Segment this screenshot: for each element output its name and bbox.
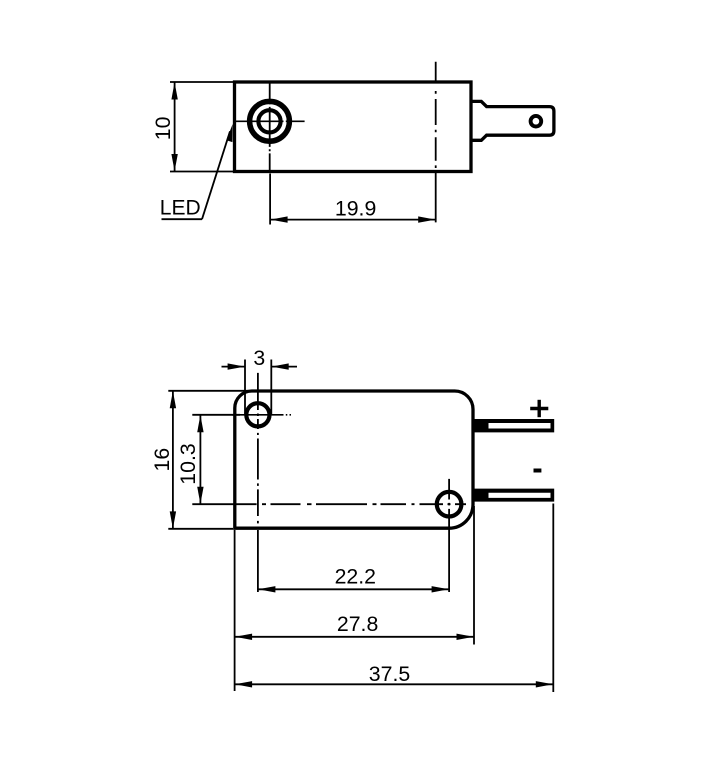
connector tab hole bbox=[531, 116, 542, 127]
svg-text:10.3: 10.3 bbox=[176, 443, 200, 484]
dimension 10.3: dimension line with arrows bbox=[199, 415, 201, 504]
top view body outline bbox=[235, 82, 472, 172]
svg-text:3: 3 bbox=[253, 346, 265, 370]
dimension 16: extension lines bbox=[168, 390, 248, 392]
svg-text:22.2: 22.2 bbox=[335, 565, 376, 589]
svg-text:16: 16 bbox=[150, 448, 174, 472]
LED label leader diagonal bbox=[202, 131, 230, 219]
LED indicator outer ring bbox=[250, 101, 290, 141]
dimension 16: dimension line with arrows bbox=[172, 391, 174, 528]
LED vertical centerline segments bbox=[269, 82, 271, 172]
minus polarity symbol bbox=[534, 469, 542, 473]
svg-text:19.9: 19.9 bbox=[335, 196, 376, 220]
plus terminal pin bbox=[475, 419, 555, 432]
svg-text:27.8: 27.8 bbox=[337, 612, 378, 636]
dimension 27.8: dimension line with arrows bbox=[235, 636, 474, 638]
dimension 10: extension lines bbox=[170, 81, 233, 83]
dimension 10.3: extension lines bbox=[192, 414, 240, 416]
dimension 10: dimension line with arrows bbox=[174, 83, 176, 172]
mounting hole 1 (top left) bbox=[246, 403, 269, 426]
hole 1 horizontal centerline segments bbox=[232, 414, 291, 416]
minus terminal pin bbox=[475, 489, 555, 502]
svg-text:37.5: 37.5 bbox=[369, 662, 410, 686]
LED label leader arrowhead bbox=[226, 124, 232, 142]
dimension 37.5: extension line right bbox=[552, 504, 554, 693]
mounting hole 2 (bottom right) bbox=[437, 492, 462, 517]
main vertical dash-dot centerline of top view bbox=[435, 62, 437, 223]
dimension 27.8: extension lines bbox=[234, 530, 236, 642]
dimension 3: extension lines bbox=[244, 360, 246, 415]
main horizontal centerline through hole 2 bbox=[232, 503, 466, 505]
hole 1 vertical centerline segments bbox=[257, 373, 259, 530]
dimension 19.9: dimension line with arrows bbox=[270, 219, 436, 221]
bottom view body outline bbox=[235, 391, 473, 528]
plus polarity symbol bbox=[530, 407, 548, 411]
LED horizontal centerline segments bbox=[235, 120, 305, 122]
svg-text:LED: LED bbox=[160, 197, 201, 220]
connector tab (quick-connect terminal) bbox=[471, 101, 554, 140]
dimension 22.2: dimension line with arrows bbox=[258, 588, 449, 590]
LED label leader underline bbox=[162, 218, 203, 220]
dimension 37.5: dimension line with arrows bbox=[235, 683, 554, 685]
dimension 3: dimension line, outside arrows pointing inward bbox=[222, 366, 246, 368]
svg-text:10: 10 bbox=[151, 116, 175, 140]
LED indicator inner ring bbox=[258, 110, 280, 132]
dimension 19.9: left extension line bbox=[269, 174, 271, 225]
hole 2 vertical centerline segments bbox=[448, 479, 450, 535]
dimension 37.5: left extension continues (shared with 27.8) bbox=[234, 642, 236, 692]
dimension 22.2: extension lines bbox=[257, 530, 259, 592]
